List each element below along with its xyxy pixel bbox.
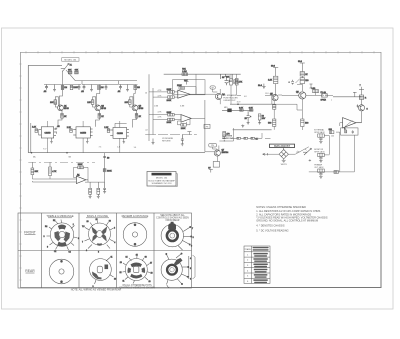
capacitor C5 (ch2) xyxy=(105,85,108,91)
ground (reverb return) xyxy=(181,144,184,146)
wire feedback divider stubs xyxy=(231,74,241,104)
box (reverb output xfmr) xyxy=(213,162,219,168)
svg-text:4: 4 xyxy=(114,242,115,244)
svg-text:13: 13 xyxy=(114,279,116,281)
transistor Q6 (driver) xyxy=(270,94,278,101)
wire input rail xyxy=(28,64,62,66)
wire driver emitter xyxy=(273,101,275,130)
model number label box xyxy=(62,58,79,62)
svg-text:4.7K: 4.7K xyxy=(52,171,57,173)
svg-text:1M: 1M xyxy=(137,87,140,89)
power tick T4 (driver rail 1) xyxy=(271,66,278,70)
svg-text:MID: MID xyxy=(224,107,228,109)
resistor R19 (mixer load 1) xyxy=(89,182,92,194)
node junction A xyxy=(31,152,36,159)
svg-text:12: 12 xyxy=(96,219,98,221)
svg-text:SOLID STATE GUITAR AMP: SOLID STATE GUITAR AMP xyxy=(148,179,175,182)
resistor R32 (output rail) xyxy=(300,78,309,84)
svg-text:6.8K: 6.8K xyxy=(239,108,244,110)
svg-text:EP16: EP16 xyxy=(64,108,69,110)
wire tone row xyxy=(222,109,253,111)
knob diagram: front treble pot xyxy=(44,220,80,254)
resistor R15 (U3 left) xyxy=(104,127,110,133)
svg-text:1.5M: 1.5M xyxy=(182,71,187,73)
header underlines xyxy=(48,217,148,219)
ground (C13) xyxy=(247,120,250,125)
svg-text:R4: R4 xyxy=(45,226,47,228)
svg-text:F1 4A: F1 4A xyxy=(321,91,327,94)
svg-text:FROM REAR: FROM REAR xyxy=(166,219,180,222)
box (protection network) xyxy=(341,128,358,135)
power tick T5 (driver rail 2) xyxy=(298,61,305,65)
wire preamp loop rectangle xyxy=(173,80,206,95)
resistor R22 1.5M (top) xyxy=(182,69,188,76)
power tick T1 xyxy=(184,80,189,85)
svg-text:REVERB & DISTANCE: REVERB & DISTANCE xyxy=(122,214,149,218)
resistor R12 (ch3 bias) xyxy=(134,85,140,89)
svg-text:TRANS: TRANS xyxy=(244,248,251,251)
capacitor C2 (ch1) xyxy=(78,85,81,91)
wire reverb send vertical xyxy=(204,100,206,152)
wire jack to channel rows xyxy=(63,70,138,85)
svg-text:5. * DC VOLTAGE READING: 5. * DC VOLTAGE READING xyxy=(256,230,288,233)
jack group: monitor speaker xyxy=(314,149,325,163)
svg-text:1: 1 xyxy=(73,224,74,226)
vertical feeder x=30.8 xyxy=(30,123,32,153)
pot box (mid) dark xyxy=(224,107,232,112)
wire mixer inputs xyxy=(32,175,76,182)
wire shield dash line xyxy=(28,161,95,163)
svg-text:8: 8 xyxy=(98,252,99,254)
resistor R28 (U5 in upper) xyxy=(167,112,175,116)
voltage chart rows xyxy=(247,254,249,283)
svg-text:4: 4 xyxy=(86,250,87,252)
resistor R3 (ch1 bias) xyxy=(61,85,67,89)
wire U5 output/feedback xyxy=(178,118,205,124)
svg-text:9: 9 xyxy=(47,247,48,249)
switch diagonal (rail) xyxy=(296,79,303,84)
svg-text:10: 10 xyxy=(87,221,89,223)
svg-text:6: 6 xyxy=(190,279,191,281)
svg-text:11: 11 xyxy=(111,257,113,259)
op-amp A3 (driver stage) xyxy=(181,115,191,123)
wire U1 pins to bus xyxy=(39,121,48,153)
capacitor C1 xyxy=(44,85,49,94)
svg-text:17: 17 xyxy=(150,262,152,264)
svg-text:16: 16 xyxy=(145,257,147,259)
svg-text:19: 19 xyxy=(149,281,151,283)
fuse box F1 xyxy=(321,91,328,102)
wire center left rails xyxy=(149,74,153,141)
svg-text:WH723: WH723 xyxy=(281,164,287,166)
resistor R46 (bus a) xyxy=(329,129,334,134)
wire channel 1 input row xyxy=(44,84,81,86)
resistor R2 (jack series) xyxy=(75,70,79,74)
svg-text:2.2K: 2.2K xyxy=(268,80,273,82)
svg-text:2.2K: 2.2K xyxy=(104,127,109,129)
IC U1 (ch1 tone module) xyxy=(39,127,57,138)
svg-text:OUT JACK: OUT JACK xyxy=(314,166,324,169)
svg-text:SEE NOTE ABOUT ALL: SEE NOTE ABOUT ALL xyxy=(160,214,185,217)
frame tick marks left xyxy=(19,64,21,280)
labels U5 inputs xyxy=(158,111,163,118)
resistor R17 (mixer input 2) xyxy=(49,162,57,175)
resistor R14 (Q3 emitter) xyxy=(135,114,141,119)
resistor R7 (U1 left) xyxy=(32,127,38,133)
svg-text:15.8: 15.8 xyxy=(265,93,269,95)
wire driver couplings xyxy=(265,95,299,104)
wire send line x=104.6 xyxy=(104,153,106,182)
svg-text:100: 100 xyxy=(331,136,334,138)
svg-text:100K: 100K xyxy=(167,100,172,102)
capacitor C14 (boxed electrolytic) xyxy=(258,114,266,120)
svg-text:1.5M: 1.5M xyxy=(154,106,159,108)
title block box xyxy=(147,172,177,187)
resistor R25 (U4 in lower) xyxy=(167,96,175,102)
capacitor C7 (mixer out) xyxy=(103,182,106,191)
wire Q3 collector xyxy=(130,97,133,108)
label driver note xyxy=(223,94,238,102)
diagonal through op-amp xyxy=(345,121,353,127)
svg-text:MODEL 134: MODEL 134 xyxy=(156,178,168,180)
resistor R16 (mixer input 1) xyxy=(31,162,39,174)
resistor R32b (output rail upper) xyxy=(300,72,308,76)
svg-text:14: 14 xyxy=(126,257,128,259)
capacitor C8 (send line) xyxy=(103,156,110,159)
svg-text:1M: 1M xyxy=(101,87,104,89)
resistor R10 (Q2 emitter) xyxy=(98,114,104,119)
notes text block xyxy=(256,206,328,232)
ground (ch1 input) xyxy=(53,85,56,92)
jack group: line out xyxy=(314,164,324,179)
svg-text:7.5: 7.5 xyxy=(82,226,85,228)
wire main ground bus xyxy=(28,152,205,154)
ground (mixer load 2) xyxy=(97,194,100,198)
IC U3 (ch3 tone module) xyxy=(110,128,129,139)
svg-text:4. * DENOTES CHASSIS: 4. * DENOTES CHASSIS xyxy=(256,225,285,228)
transistor Q8 (output device) xyxy=(357,105,369,111)
ground (U1 pin) xyxy=(50,138,53,143)
wire protection to bus xyxy=(309,123,355,172)
svg-text:2.2K: 2.2K xyxy=(32,127,37,129)
resistor R39 (bottom row a) xyxy=(237,137,241,139)
svg-text:NOTE: ALL WIRING AS VIEWED FRO: NOTE: ALL WIRING AS VIEWED FROM REAR xyxy=(71,289,122,292)
label box (footswitch) xyxy=(204,124,210,128)
svg-text:220K: 220K xyxy=(181,128,186,130)
svg-text:220K: 220K xyxy=(177,85,182,87)
test point box TP1 xyxy=(210,86,215,90)
svg-text:SCHEMATIC NO 124: SCHEMATIC NO 124 xyxy=(152,182,173,185)
svg-text:15: 15 xyxy=(136,254,138,256)
resistor R6 (Q1 emitter) xyxy=(61,114,67,119)
frame tick marks top xyxy=(26,51,374,53)
knob diagram: rear bass pot xyxy=(90,257,117,289)
resistor R4 (ch1) xyxy=(70,85,78,89)
capacitor C9 (+ coupling) xyxy=(220,74,231,85)
wire output rail 2 xyxy=(301,66,303,92)
resistor R42 (output line) xyxy=(312,88,319,96)
resistor R24 (U4 in upper) xyxy=(167,89,175,93)
svg-text:12: 12 xyxy=(120,272,122,274)
tick (output node) xyxy=(310,84,313,88)
resistor R30 (reverb driver) xyxy=(223,132,231,137)
svg-text:EP16: EP16 xyxy=(101,108,106,110)
wire reverb dash bus xyxy=(145,134,197,136)
node dot (driver input) xyxy=(237,102,242,105)
op-amp A2 (preamp) xyxy=(178,87,190,99)
capacitor C11 (reverb return) xyxy=(181,135,184,144)
resistor R20 (mixer load 2) xyxy=(97,182,100,194)
svg-text:8: 8 xyxy=(193,237,194,239)
svg-text:RETURN: RETURN xyxy=(162,140,171,142)
resistor R41 (bottom row c) xyxy=(251,137,259,140)
ground (tone row) xyxy=(241,125,244,128)
svg-text:10: 10 xyxy=(145,93,147,95)
resistor R36 (tone b) xyxy=(249,108,254,112)
ground (U2 pin) xyxy=(86,138,89,143)
input jack arrow (line in) xyxy=(303,148,311,155)
svg-text:16: 16 xyxy=(296,152,298,154)
transistor Q7 (output) xyxy=(296,92,306,100)
tick (jack) xyxy=(309,159,312,161)
ground (U3 pin) xyxy=(123,138,126,143)
wire bias right + switch xyxy=(288,147,308,154)
svg-text:UNDER CLIP: UNDER CLIP xyxy=(223,100,236,102)
svg-text:REAR: REAR xyxy=(25,269,35,273)
wire U5 inputs xyxy=(149,115,181,120)
capacitor C10 xyxy=(224,74,227,76)
resistor R34 (feedback divider b) xyxy=(235,79,238,86)
wire bias left w/ arrow xyxy=(263,153,280,155)
ground (driver) xyxy=(258,84,266,89)
transistor Q2 xyxy=(95,105,106,111)
transistor Q5 (reverb driver) xyxy=(214,150,228,156)
label box (reverb unit) xyxy=(209,143,217,147)
svg-text:7.5*: 7.5* xyxy=(43,149,47,151)
wire Q4 connections xyxy=(213,89,221,104)
resistor R8 (ch2 bias) xyxy=(98,85,104,89)
node junction B xyxy=(66,152,71,159)
resistor R23 (U4 feedback) xyxy=(177,85,185,89)
svg-text:18: 18 xyxy=(151,273,153,275)
ground (center shield) xyxy=(152,139,155,145)
wire U2 pins to bus xyxy=(82,121,84,153)
transistor Q1 xyxy=(58,105,69,111)
resistor R47 (bus b) xyxy=(334,171,338,174)
op-amp A4 (protection) xyxy=(343,118,362,128)
transistor Q4 (follower) xyxy=(216,93,226,99)
knob diagram: front power switch assembly xyxy=(161,222,194,250)
labels U4 inputs xyxy=(145,90,185,131)
capacitor C12 (reverb driver) xyxy=(223,137,226,142)
svg-text:100K: 100K xyxy=(167,122,172,124)
svg-text:330K: 330K xyxy=(78,164,83,166)
svg-text:SPKR: SPKR xyxy=(321,99,327,101)
svg-text:6.8K: 6.8K xyxy=(249,108,254,110)
svg-text:C4: C4 xyxy=(69,251,71,253)
jack group: external speaker xyxy=(314,129,325,144)
wire U4 output xyxy=(185,74,216,95)
wire Q5 connections xyxy=(205,128,234,162)
trimpot VR1 (bias diamond) xyxy=(279,148,288,159)
svg-text:13: 13 xyxy=(120,262,122,264)
capacitor C16 (in protection box b) xyxy=(352,130,354,134)
resistor R38 (output emitter) xyxy=(301,119,310,127)
svg-text:SPKR JACK: SPKR JACK xyxy=(314,131,325,134)
resistor R13 (Q3 collector) xyxy=(125,100,132,105)
ground (ch3 input) xyxy=(126,85,129,92)
wire mixer output xyxy=(85,180,105,182)
wire output line right xyxy=(306,95,362,96)
knob diagram: rear reverb pot xyxy=(120,254,153,283)
svg-text:6: 6 xyxy=(78,238,79,240)
knob diagram: front reverb pot (plain) xyxy=(123,223,147,247)
svg-text:MODEL 134: MODEL 134 xyxy=(64,60,77,62)
wire driver lower bus xyxy=(233,129,272,131)
svg-text:100K: 100K xyxy=(167,89,172,91)
svg-text:NOTES: UNLESS OTHERWISE SPECIF: NOTES: UNLESS OTHERWISE SPECIFIED xyxy=(256,206,306,209)
svg-text:2.2K: 2.2K xyxy=(67,127,72,129)
wire driver rail 1 xyxy=(275,70,277,95)
svg-text:BASS & VOLUME: BASS & VOLUME xyxy=(87,214,108,218)
op-amp A1 (mixer) xyxy=(76,173,86,183)
wire Q1 base/emitter xyxy=(58,85,63,127)
resistor R40 (bottom row b) xyxy=(244,137,248,139)
resistor R31 (driver collector) xyxy=(268,76,278,83)
svg-text:C1358: C1358 xyxy=(117,133,124,135)
transistor Q3 xyxy=(132,105,143,111)
svg-text:100K: 100K xyxy=(167,112,172,114)
resistor R18 (mixer feedback) xyxy=(78,164,84,169)
wire bottom row xyxy=(231,133,271,138)
bracket right of table xyxy=(193,255,196,279)
svg-text:11: 11 xyxy=(123,281,125,283)
frame shadow bottom-right xyxy=(180,90,381,288)
capacitor C15 (+ rail) xyxy=(289,80,295,85)
wire top feedback run xyxy=(164,73,241,75)
svg-text:100K: 100K xyxy=(107,171,112,173)
voltage chart table xyxy=(244,246,270,283)
capacitor C3 (U1 right) xyxy=(55,126,61,134)
control layout table grid xyxy=(18,213,192,288)
svg-text:ON ALL OTHERWISE POTS: ON ALL OTHERWISE POTS xyxy=(122,284,152,287)
svg-text:R2: R2 xyxy=(53,220,55,222)
svg-text:2N3704: 2N3704 xyxy=(222,152,229,154)
power tick T2 xyxy=(187,132,191,135)
bias adjust label (dark) xyxy=(270,144,295,148)
power tick T6 (spkr) xyxy=(359,85,364,90)
wire ch2 input row xyxy=(82,84,118,86)
resistor R37b (Q6 emitter upper) xyxy=(273,105,276,109)
resistor R27 (U5 feedback) xyxy=(181,124,187,131)
wire Q2 base/emitter xyxy=(96,85,100,127)
resistor R29 (U5 in lower) xyxy=(167,118,175,124)
capacitor C4 (ch2) xyxy=(81,85,85,94)
svg-text:3: 3 xyxy=(44,236,45,238)
svg-text:.02: .02 xyxy=(145,130,148,132)
svg-text:EP16: EP16 xyxy=(139,108,144,110)
wire left rail vertical xyxy=(27,65,29,152)
power tick T3 xyxy=(208,168,213,173)
ground (mixer load 1) xyxy=(89,194,92,198)
resistor R43 (output stack) xyxy=(359,95,367,100)
resistor R9 (Q2 collector) xyxy=(87,100,94,105)
svg-text:5: 5 xyxy=(190,268,191,270)
wire U3 pins to bus xyxy=(115,121,127,153)
svg-text:TREBLE & MIDRANGE: TREBLE & MIDRANGE xyxy=(46,214,74,218)
resistor R35 (tone a) xyxy=(239,108,244,112)
svg-text:SPKR JACK: SPKR JACK xyxy=(314,150,325,153)
svg-text:7: 7 xyxy=(192,228,193,230)
wire Q1 collector xyxy=(55,97,58,108)
resistor R11 (U2 left) xyxy=(67,127,73,133)
svg-text:C2: C2 xyxy=(54,251,56,253)
svg-text:7: 7 xyxy=(82,242,83,244)
wire driver mid bus xyxy=(230,103,275,105)
resistor R33 (feedback divider a) xyxy=(226,77,232,85)
label reverb return xyxy=(162,138,174,142)
wire Q2 collector xyxy=(93,97,96,108)
svg-text:3.3M: 3.3M xyxy=(180,105,185,107)
schematic border frame xyxy=(21,52,382,287)
svg-text:28: 28 xyxy=(109,221,111,223)
wire output emitter xyxy=(275,99,302,130)
resistor R1 (jack shunt pair) xyxy=(68,70,72,74)
capacitor C6 (ch3) xyxy=(118,85,122,94)
input jack J1 xyxy=(61,63,73,71)
svg-text:BIAS ADJUST: BIAS ADJUST xyxy=(274,145,290,148)
resistor R21 (send line) xyxy=(103,169,112,173)
wire Q3 base/emitter xyxy=(133,85,137,128)
speaker output stack: vertical xyxy=(361,90,363,123)
capacitor C13 (+) xyxy=(245,111,253,120)
svg-text:CONTROLS SHOWN AS SEEN: CONTROLS SHOWN AS SEEN xyxy=(156,217,189,220)
node tick (spkr line) xyxy=(353,92,357,97)
knob diagram: rear power switch assembly xyxy=(161,253,191,288)
svg-text:C1358: C1358 xyxy=(80,132,87,134)
svg-text:C1358: C1358 xyxy=(45,132,52,134)
ground (C14) xyxy=(258,120,261,125)
svg-text:0.8: 0.8 xyxy=(244,96,247,98)
resistor R44 (in protection box a) xyxy=(344,128,347,133)
label reverb driver block xyxy=(222,135,234,139)
ground (mixer out cap) xyxy=(103,192,106,194)
svg-text:4: 4 xyxy=(190,258,191,260)
svg-text:CONTROLS VIEWED AS SHOWN: CONTROLS VIEWED AS SHOWN xyxy=(119,287,155,290)
svg-text:FRONT: FRONT xyxy=(24,231,36,235)
title block logo bar xyxy=(152,173,172,176)
svg-text:1M: 1M xyxy=(64,87,67,89)
resistor R37 (driver emitter) xyxy=(268,119,276,126)
ground (ch2 input) xyxy=(90,85,93,92)
wire U4 inputs xyxy=(149,92,178,97)
svg-text:3: 3 xyxy=(114,228,115,230)
knob diagram: front bass pot xyxy=(82,219,115,254)
knob diagram: rear treble pot (plain) xyxy=(49,259,74,284)
svg-text:9: 9 xyxy=(191,246,192,248)
ground (trimpot) xyxy=(282,159,286,162)
resistor R5 (Q1 collector) xyxy=(50,100,57,105)
IC U2 (ch2 tone module) xyxy=(73,127,92,138)
wire ch3 input row xyxy=(119,84,138,86)
resistor R26 xyxy=(232,74,242,84)
svg-text:GROUND, NO SIGNAL, ALL CONTROL: GROUND, NO SIGNAL, ALL CONTROLS AT MINIM… xyxy=(256,219,318,222)
wire mixer feedback loop xyxy=(74,167,89,179)
wire ext spkr to bus xyxy=(324,136,329,155)
